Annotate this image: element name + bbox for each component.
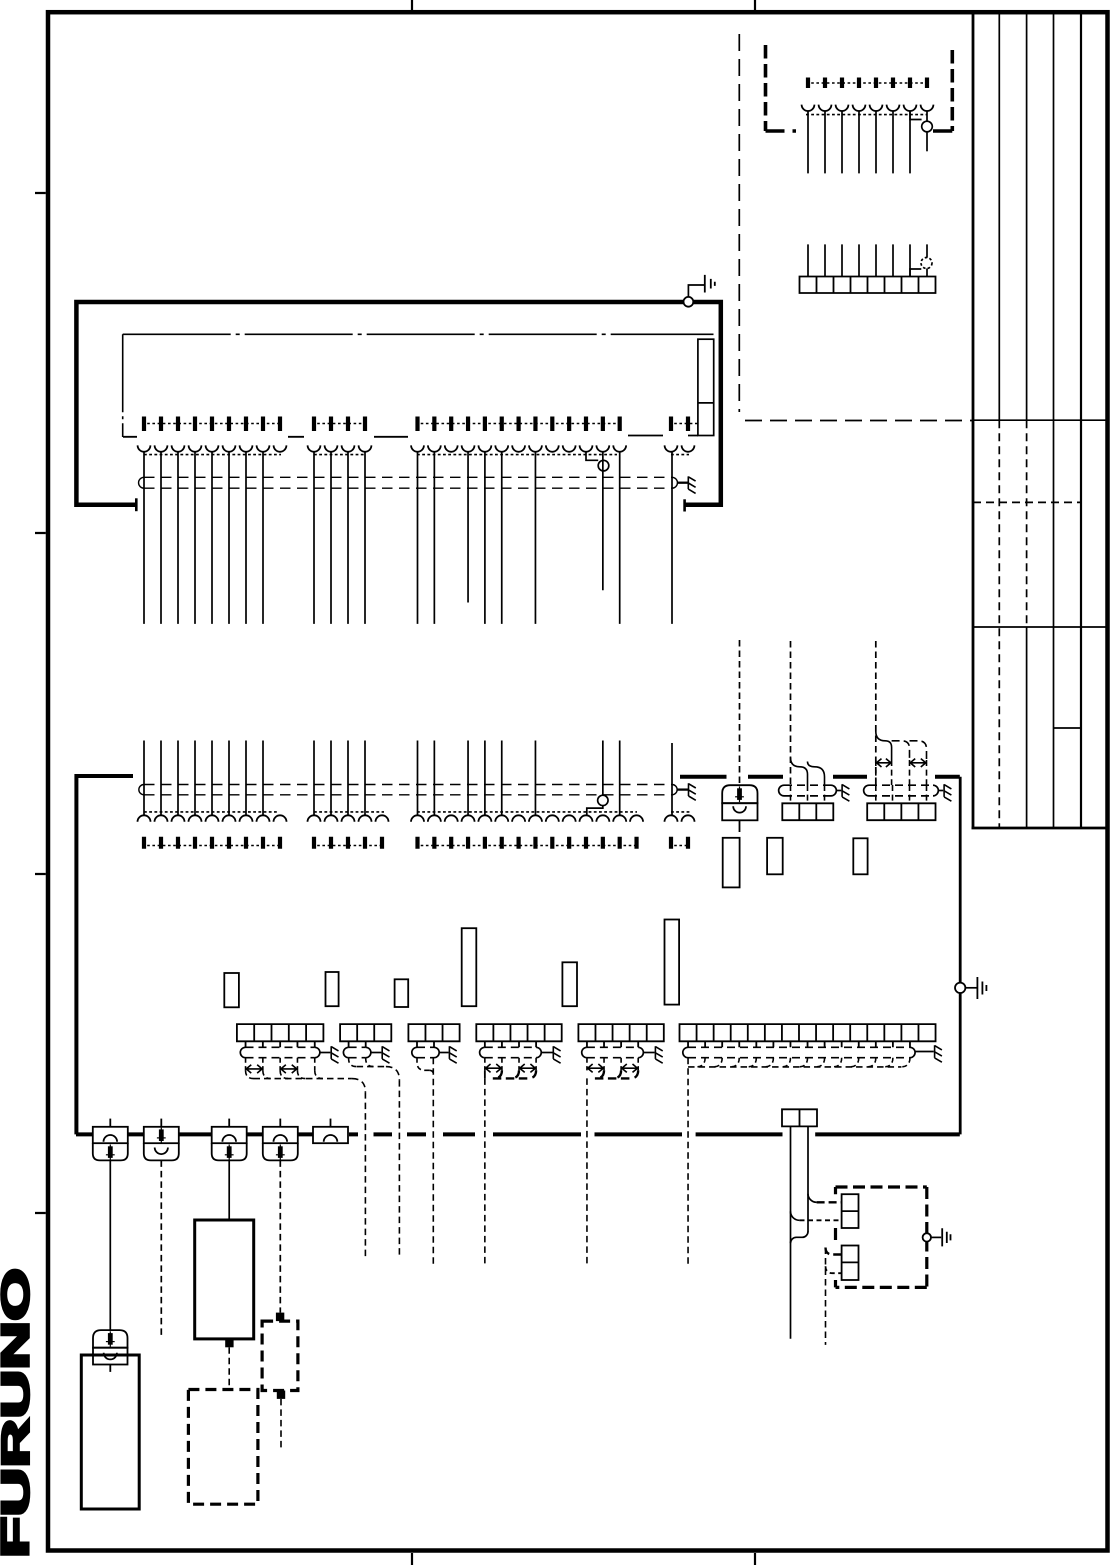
connector J4 pin link dashed (669, 423, 698, 425)
optional cable descending (825, 1248, 827, 1345)
title block row line 3 (973, 626, 1108, 628)
designation label rectangle 9 (853, 838, 867, 874)
optional cable branch to block 2 upper (826, 1248, 842, 1255)
lower unit bottom edge segments (76, 1132, 960, 1136)
heavy dashed wire to option block 1 (817, 1201, 842, 1203)
TBD shield ground lead (541, 1052, 552, 1054)
designation label rectangle 4 (462, 928, 477, 1006)
wire P1 shield drain (926, 111, 928, 151)
TBE shield ground lead (643, 1052, 654, 1054)
TBB shield ground lead (371, 1052, 381, 1054)
ground circle on upper unit top (684, 297, 694, 307)
TBE wire bends onto heavy run (596, 1070, 604, 1078)
designation label rectangle 2 (326, 972, 339, 1006)
chassis ground hatch TBC (449, 1046, 456, 1063)
TBB wire bends to trunk (349, 1058, 357, 1067)
wire from J4 (671, 452, 673, 624)
title block bottom thick rule (972, 827, 1108, 830)
TBC wire bend into trunk (417, 1058, 429, 1071)
designation label rectangle 7 (723, 838, 740, 888)
shield drain circle upper (598, 460, 609, 471)
chassis ground hatch upper cable (688, 476, 695, 493)
wire bundle from J1 (144, 452, 263, 624)
TBF shield ground lead (915, 1051, 934, 1053)
jack connector symbol on lower unit top edge (722, 785, 757, 803)
cable shield oval lower (144, 784, 672, 786)
unit B bottom terminal stub (225, 1339, 233, 1347)
option terminal block 2 (2 cells vertical) (842, 1246, 859, 1281)
TBF wire stubs (688, 1041, 910, 1047)
cable shield oval upper (144, 476, 672, 478)
cable trunk A descending (364, 1092, 366, 1257)
cable shield oval TBA (246, 1046, 315, 1048)
wire S3 to external unit B (228, 1160, 230, 1220)
TBA wires below shield (246, 1058, 315, 1071)
cable trunk D descending (484, 1078, 486, 1264)
ground symbol bars lower unit (977, 977, 986, 999)
cable shield oval TB2 (784, 784, 831, 786)
designation label rectangle 5 (562, 962, 577, 1006)
connector K1 pin row (144, 837, 280, 849)
shield ground lead upper (677, 482, 688, 484)
external unit E bottom terminal stub (277, 1391, 285, 1399)
cable trunk A run (254, 1078, 352, 1080)
lower unit left border (76, 776, 133, 1134)
title block right thick rule (1080, 12, 1082, 828)
terminal block TBB (3 cells) (340, 1024, 391, 1041)
svg-text:FURUNO: FURUNO (0, 1268, 38, 1558)
cup link dotted K4 (671, 811, 690, 813)
connector K2 pin row (314, 837, 382, 849)
bulkhead connector symbol S3 (228, 1119, 230, 1127)
cable trunk D bend (484, 1070, 486, 1078)
ground symbol bars option box (942, 1228, 950, 1246)
designation label rectangle 1 (224, 973, 239, 1007)
connector P1 pin row (808, 78, 927, 89)
upper unit inner dash-dot boundary left (122, 334, 124, 437)
designation label rectangle 6 (665, 920, 680, 1005)
title block column rule 4 (1053, 12, 1055, 828)
twisted pair arrows TBA (246, 1065, 263, 1073)
cable trunk B run (357, 1066, 386, 1068)
dashed wire from S2 (160, 1160, 162, 1339)
title block column rule 3 (dashed mid band) (1026, 12, 1028, 420)
connector J2 socket cups (308, 445, 372, 451)
ground circle on option box (923, 1233, 931, 1241)
terminal block TB4 (2 cells) on bottom edge (782, 1109, 817, 1126)
external unit A enclosure (81, 1355, 139, 1509)
external unit B enclosure (195, 1220, 254, 1339)
TBA wire stubs (246, 1041, 315, 1047)
TBF wire bends onto run (696, 1058, 705, 1067)
ground lead lower unit (965, 987, 976, 989)
power wire 1 descending (790, 1126, 792, 1338)
connector K3 pin row (418, 837, 637, 849)
fold tick marks bottom edge (412, 1553, 755, 1565)
TBC shield ground lead (439, 1052, 448, 1054)
TB1 shield drain circle dashed (921, 258, 932, 269)
twisted pair arrows TBE (587, 1064, 604, 1072)
cup link dotted K1 (144, 811, 278, 813)
connector P1 cup link dotted (806, 114, 927, 116)
power wire 1 branch (791, 1211, 800, 1220)
TB2 shield ground lead (836, 790, 841, 792)
incoming wire bundle group 2 (314, 741, 365, 816)
fold tick marks top edge (412, 0, 755, 10)
title block row line 1 (973, 419, 1108, 421)
power wire 2 descending (807, 1126, 809, 1232)
chassis ground hatch TB3 (944, 784, 951, 801)
TBD wires below shield (485, 1058, 536, 1071)
connector P1 socket cups (802, 105, 934, 111)
TBA wire bends to trunk (246, 1071, 254, 1079)
shield drain step upper (586, 452, 598, 461)
connector K2 socket cups (lower unit) (308, 815, 389, 822)
terminal block TBF (15 cells) (680, 1024, 936, 1041)
cable fan to TB2 (790, 641, 792, 785)
chassis ground hatch TB2 (842, 784, 849, 801)
wire bundle from J2 (314, 452, 365, 624)
terminal block TBD (5 cells) (476, 1024, 561, 1041)
wires from connector P1 (808, 111, 910, 173)
TBC wire stubs (417, 1041, 434, 1047)
chassis ground hatch TBA (331, 1046, 338, 1063)
upper unit enclosure outline (76, 302, 720, 505)
fold tick marks left edge (35, 193, 46, 1213)
twisted pair arrows TBD (485, 1064, 502, 1072)
dashed region boundary vertical (738, 34, 740, 412)
terminal block TBA (5 cells) (237, 1024, 324, 1041)
chassis ground hatch lower cable (689, 783, 696, 800)
connector J3 pin link dashed (416, 423, 622, 425)
cable fan to TB3 (875, 641, 877, 785)
cable trunk E heavy run (595, 1077, 632, 1079)
connector J3 pin row (upper unit) (418, 417, 620, 432)
connector K3 socket cups (lower unit) (411, 815, 643, 822)
cup link dotted J3 (417, 454, 617, 456)
incoming wire bundle group 3 (418, 741, 620, 816)
cable trunk F run (688, 1066, 901, 1068)
upper unit bottom-right terminator bar (683, 499, 686, 511)
ground symbol bars upper unit (705, 275, 715, 293)
connector K3 pin link dashed (416, 845, 639, 847)
cable trunk C descending (432, 1058, 434, 1264)
lower unit top edge segments (680, 775, 960, 779)
cup link dotted J2 (314, 454, 365, 456)
connector J1 pin link dashed (142, 423, 282, 425)
TB3 shield ground lead (938, 790, 943, 792)
external unit A connector pair (93, 1330, 128, 1348)
shield drain step P1 (910, 111, 922, 120)
title block small divider (1054, 727, 1082, 729)
incoming wire bundle group 1 (144, 741, 263, 816)
cable shield oval TBB (349, 1046, 366, 1048)
upper unit inner dash-dot boundary top (123, 333, 714, 335)
connector K2 pin link dashed (312, 845, 384, 847)
shield drain circle lower (598, 795, 608, 805)
TB3 wire stubs (876, 785, 927, 803)
cable trunk F descending (687, 1058, 689, 1264)
cup link dotted J1 (144, 454, 281, 456)
incoming wire group 4 (671, 743, 673, 815)
lower unit right border (959, 777, 962, 1135)
external unit E top terminal stub (276, 1313, 284, 1322)
connector K4 socket cups (lower unit) (665, 815, 695, 822)
power wire 2 branch to option box (808, 1194, 817, 1203)
title block left thick rule (972, 12, 975, 828)
upper unit bottom-left terminator bar (135, 498, 138, 511)
cup link dotted K2 (314, 811, 384, 813)
cable trunk B descending (398, 1080, 400, 1258)
chassis ground hatch TBF (935, 1045, 942, 1062)
terminal block TB2 (3 cells) (782, 803, 833, 820)
chassis ground hatch TBB (382, 1046, 389, 1063)
twisted pair arrows TB3 (876, 759, 892, 767)
bulkhead connector symbol S5 (330, 1119, 332, 1127)
TBB wire stubs (349, 1041, 366, 1047)
designation label rectangle 8 (767, 838, 783, 875)
option terminal block 1 (2 cells vertical) (842, 1194, 859, 1228)
connector J1 socket cups (138, 445, 287, 451)
connector J4 pin row (upper unit) (671, 417, 688, 432)
cable shield oval TB3 (869, 784, 933, 786)
shield drain step lower (587, 806, 603, 816)
TB1 shield drain step (910, 269, 921, 277)
optional cable branch to block 2 lower (826, 1266, 842, 1273)
TBE wires below shield (587, 1058, 638, 1071)
title block column rule 2 (solid above row1, dashed below) (998, 12, 1000, 420)
cable trunk B bend (386, 1067, 400, 1081)
dashed wire from S4 (279, 1160, 281, 1312)
connector P1 pin link dashed (806, 82, 929, 84)
thin dashed wire to option block 1 lower (800, 1219, 842, 1221)
ground lead option box (931, 1236, 941, 1238)
cable trunk E descending (586, 1078, 588, 1264)
cable shield oval TBF (688, 1046, 910, 1048)
optional unit bracket right (heavy dashed L) (950, 50, 954, 131)
TBE wire stubs (587, 1041, 638, 1047)
connector J1 pin row (upper unit) (144, 417, 280, 432)
connector J3 socket cups (411, 445, 626, 451)
cup link dotted K3 (417, 811, 637, 813)
dashed cable to jack connector (739, 640, 741, 785)
bulkhead connector symbol S4 (279, 1119, 281, 1127)
connector J2 pin link dashed (312, 423, 367, 425)
ground circle on lower unit right border (955, 983, 965, 993)
terminal block TBE (5 cells) (578, 1024, 663, 1041)
upper unit connector shell rectangle (698, 339, 714, 435)
connector K4 pin row (671, 837, 688, 849)
wire S1 to external unit A (109, 1160, 111, 1330)
TBA shield ground lead (320, 1052, 331, 1054)
bulkhead connector symbol S1 (109, 1119, 111, 1127)
dashed region boundary horizontal (745, 420, 973, 422)
shield drain circle P1 (922, 121, 933, 132)
title block row line 2 dashed (973, 501, 1081, 503)
cable trunk A bend (352, 1079, 366, 1093)
cup link dotted J4 (671, 454, 689, 456)
cable trunk D heavy run (493, 1077, 530, 1079)
TB2 wire stubs (791, 785, 825, 803)
terminal block TB1 (8 cells) (800, 277, 936, 294)
connector K1 socket cups (lower unit) (138, 815, 287, 822)
TBD wire stubs (485, 1041, 536, 1047)
TBD wire bends onto heavy run (494, 1070, 502, 1078)
terminal block TBC (3 cells) (408, 1024, 459, 1041)
ground lead upper unit (688, 285, 704, 297)
optional unit bracket left (heavy dashed L) (764, 45, 768, 131)
cable shield oval TBE (587, 1046, 638, 1048)
connector K1 pin link dashed (142, 845, 282, 847)
wires to terminal block TB1 (808, 244, 927, 276)
bulkhead connector symbol S2 (160, 1119, 162, 1127)
designation label rectangle 3 (395, 979, 409, 1007)
chassis ground hatch TBE (655, 1046, 662, 1063)
external unit E enclosure (optional, dashed) (262, 1321, 298, 1390)
chassis ground hatch TBD (553, 1046, 560, 1063)
connector J4 socket cups (665, 445, 695, 451)
wire bundle from J3 (418, 452, 620, 624)
optional junction box (dashed) (836, 1185, 927, 1188)
cable shield oval TBD (485, 1046, 536, 1048)
shield ground lead lower (677, 788, 688, 790)
connector K4 pin link dashed (669, 845, 690, 847)
dashed wire below unit E (280, 1399, 282, 1450)
terminal block TB3 (4 cells) (867, 803, 935, 820)
connector J2 pin row (upper unit) (314, 417, 365, 432)
power wire 2 merge bend (791, 1232, 809, 1244)
cable shield oval TBC (417, 1046, 434, 1048)
dashed wire unit B to unit D (228, 1347, 230, 1389)
upper unit inner boundary bottom segments (123, 436, 698, 437)
external unit D enclosure (optional, dashed) (188, 1390, 258, 1505)
